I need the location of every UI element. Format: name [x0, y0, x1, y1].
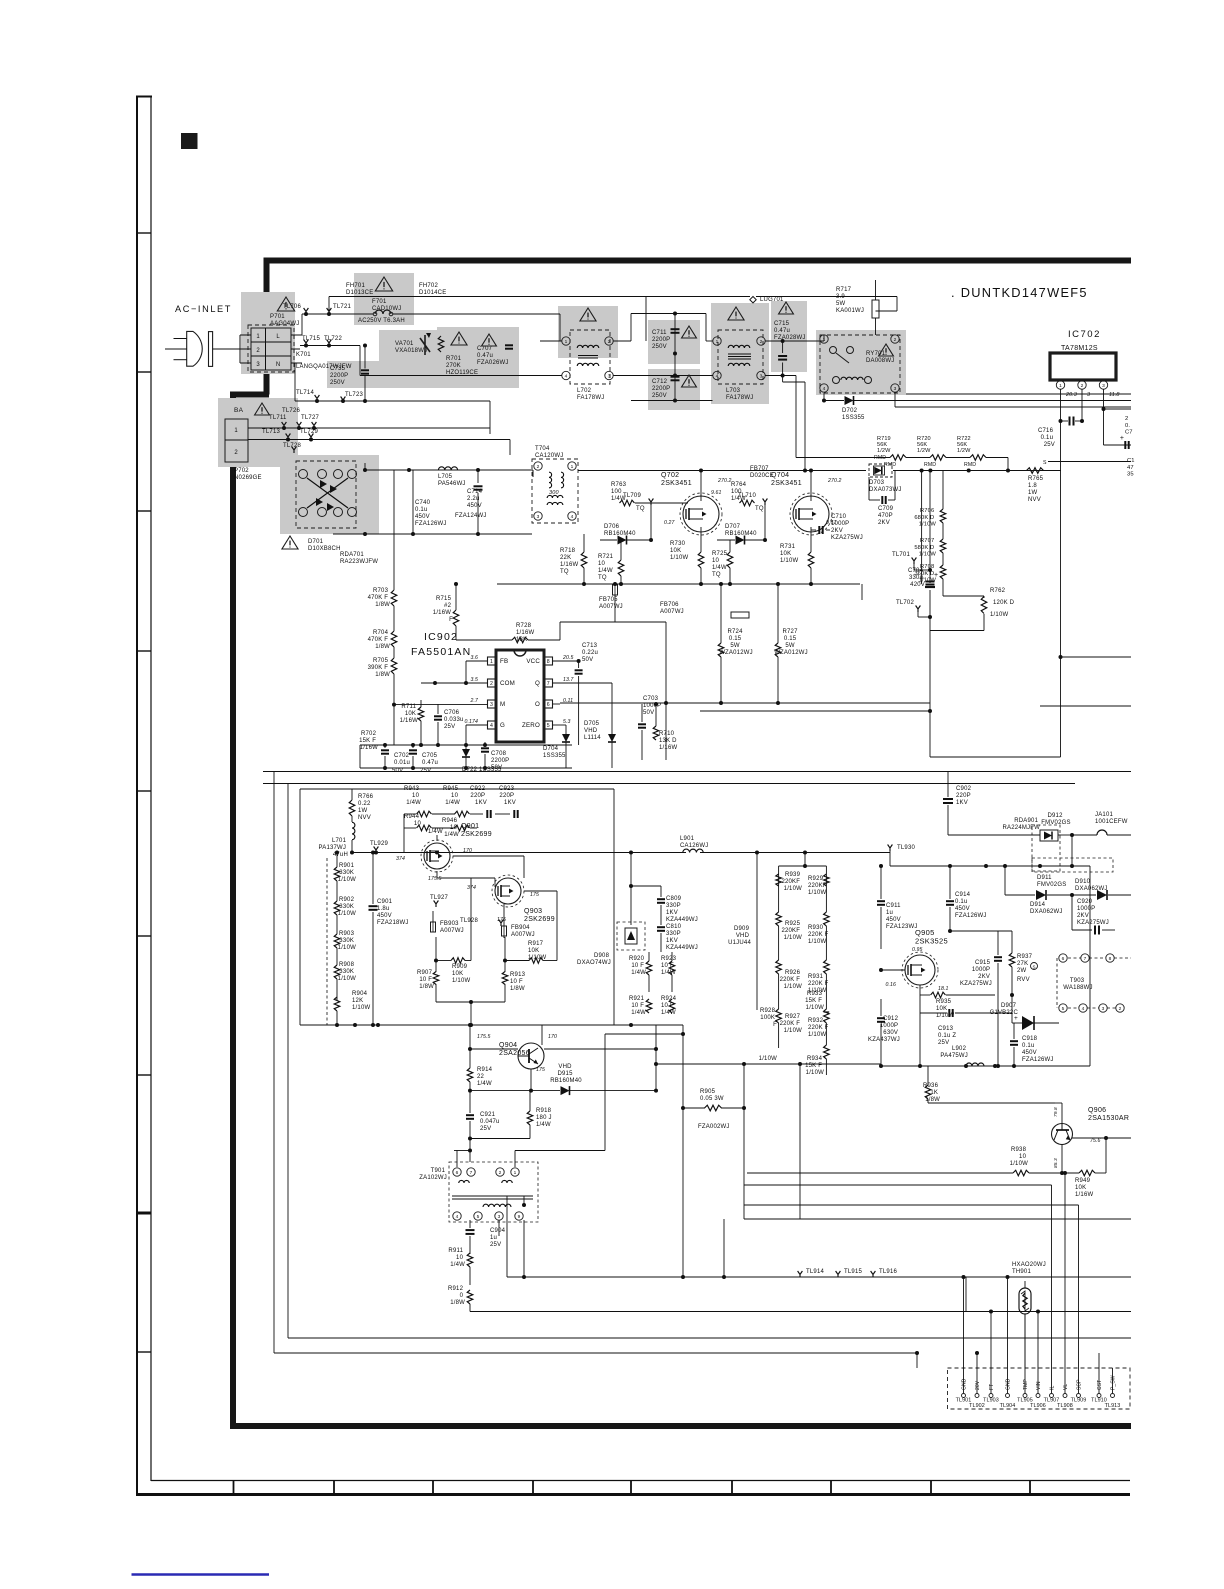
svg-text:13.7: 13.7 — [563, 677, 575, 683]
svg-text:FT: FT — [989, 1384, 995, 1390]
dashed sense line — [326, 858, 328, 1025]
gray box C712 — [648, 369, 700, 410]
svg-text:+: + — [934, 572, 938, 579]
capacitor C710 — [818, 526, 820, 534]
svg-text:TL908: TL908 — [1057, 1403, 1073, 1409]
wires D701 to T704 — [365, 469, 533, 471]
svg-text:3: 3 — [760, 374, 763, 380]
outer loop verticals — [273, 772, 275, 1354]
svg-text:R901 330K 1/10W: R901 330K 1/10W — [338, 863, 356, 883]
svg-text:6: 6 — [1062, 956, 1065, 962]
vertical C711 C712 rail — [674, 314, 676, 401]
IC702 pins — [1056, 381, 1064, 389]
rail y1338 — [288, 1337, 1131, 1339]
svg-text:3.6: 3.6 — [470, 655, 478, 661]
rail TL914 row — [507, 1276, 1131, 1278]
rail y1002 — [436, 1001, 505, 1003]
svg-text:1: 1 — [565, 339, 568, 345]
warning triangle F701 — [375, 277, 392, 291]
svg-text:TL927: TL927 — [430, 895, 448, 901]
wire source rail y584 — [560, 583, 860, 585]
svg-text:C704 330u 420V: C704 330u 420V — [908, 568, 925, 588]
svg-text:P_SW: P_SW — [1111, 1375, 1117, 1390]
svg-text:79.8: 79.8 — [1053, 1107, 1059, 1117]
wires IC902 left — [466, 660, 488, 662]
svg-text:LUG701: LUG701 — [760, 297, 784, 303]
rail y1219 — [744, 1218, 1131, 1220]
svg-text:5: 5 — [547, 723, 550, 729]
svg-text:R902 330K 1/10W: R902 330K 1/10W — [338, 897, 356, 917]
svg-text:FB903 A007WJ: FB903 A007WJ — [440, 921, 464, 934]
svg-text:TL930: TL930 — [897, 845, 915, 851]
svg-text:7: 7 — [547, 681, 550, 687]
inner box bottom — [300, 1024, 630, 1026]
svg-text:4: 4 — [571, 514, 574, 520]
wire x757 drop — [756, 853, 758, 867]
svg-text:3: 3 — [894, 386, 897, 392]
gray box R701 C707 — [437, 327, 519, 388]
svg-text:85.3: 85.3 — [1053, 1158, 1059, 1168]
blue footer line — [132, 1573, 270, 1575]
svg-text:50V: 50V — [392, 768, 403, 774]
svg-text:D705 VHD L1114: D705 VHD L1114 — [584, 721, 601, 741]
line filter transformer L703 — [718, 330, 763, 384]
svg-text:20.5: 20.5 — [562, 655, 574, 661]
svg-text:BA: BA — [234, 407, 244, 414]
svg-text:TL701: TL701 — [892, 552, 910, 558]
svg-text:VL: VL — [1063, 1384, 1069, 1390]
svg-text:TL929: TL929 — [370, 841, 388, 847]
svg-text:18.1: 18.1 — [938, 986, 949, 992]
wires L703 right — [765, 340, 824, 342]
svg-text:120K D: 120K D — [993, 600, 1015, 606]
svg-text:R920 10 F 1/4W: R920 10 F 1/4W — [629, 956, 646, 976]
svg-text:9: 9 — [518, 1214, 521, 1220]
svg-text:VIN: VIN — [1036, 1381, 1042, 1390]
capacitors C809 C810 — [657, 898, 665, 900]
svg-text:TL726: TL726 — [282, 408, 300, 414]
svg-text:TL702: TL702 — [896, 600, 914, 606]
dashed box D911 — [1032, 858, 1113, 872]
TL715 TL722 — [304, 340, 309, 347]
diodes D914 D910 — [1036, 890, 1046, 900]
IC702 regulator body — [1050, 353, 1116, 380]
misc verticals right — [965, 1277, 967, 1312]
svg-text:270.2: 270.2 — [827, 478, 841, 484]
svg-text:+: + — [1014, 1015, 1018, 1022]
wire right rails — [921, 471, 923, 585]
svg-text:IC902: IC902 — [424, 631, 458, 643]
wire IC702 pin3 — [1103, 389, 1105, 409]
svg-text:TL711: TL711 — [269, 415, 287, 421]
svg-text:TL928: TL928 — [460, 918, 478, 924]
svg-text:175: 175 — [530, 892, 539, 898]
svg-text:1: 1 — [490, 659, 493, 665]
gray box RY701 — [816, 330, 906, 395]
warning triangle C712 — [682, 375, 697, 387]
wire fuse row — [302, 313, 373, 315]
svg-text:R921 10 F 1/4W: R921 10 F 1/4W — [629, 996, 646, 1016]
svg-text:175.5: 175.5 — [477, 1034, 490, 1040]
warning triangle C715 — [779, 302, 794, 314]
connector pins — [962, 1394, 966, 1398]
inner box top — [300, 788, 614, 790]
capacitor C709 — [881, 496, 883, 504]
inductor L705 — [438, 467, 457, 470]
svg-text:3: 3 — [1102, 1006, 1105, 1012]
svg-text:170: 170 — [463, 848, 472, 854]
svg-text:G: G — [500, 722, 505, 729]
svg-text:3: 3 — [498, 1214, 501, 1220]
svg-text:FZA124WJ: FZA124WJ — [455, 513, 487, 519]
svg-text:TL915: TL915 — [844, 1269, 862, 1275]
thick schematic border — [230, 258, 1131, 1427]
svg-text:RMD: RMD — [874, 455, 886, 461]
svg-text:2: 2 — [1081, 383, 1084, 389]
rail Q901 top — [352, 852, 686, 854]
svg-text:TL710: TL710 — [738, 493, 756, 499]
wire IC702 pin2 — [1081, 389, 1083, 421]
gray box L703 — [711, 303, 769, 404]
svg-text:M: M — [500, 701, 505, 708]
svg-text:R908 330K 1/10W: R908 330K 1/10W — [338, 962, 356, 982]
left rails to bottom — [273, 1352, 275, 1354]
svg-text:TQ: TQ — [636, 506, 645, 512]
diode D703 boxed — [869, 464, 892, 477]
TL710 — [763, 499, 768, 506]
svg-text:FB904 A007WJ: FB904 A007WJ — [511, 925, 535, 938]
svg-text:6: 6 — [456, 1170, 459, 1176]
svg-text:TL913: TL913 — [1105, 1403, 1121, 1409]
wire lug row — [329, 296, 750, 298]
connector P701 — [251, 328, 291, 370]
svg-text:0.95: 0.95 — [912, 947, 923, 953]
gray box VA701 — [379, 330, 437, 388]
svg-text:R913 10 F 1/8W: R913 10 F 1/8W — [510, 972, 527, 992]
svg-text:2: 2 — [894, 337, 897, 343]
wire O pin run — [560, 702, 930, 704]
rail y584 to left — [497, 583, 560, 585]
wire out 394 top — [906, 393, 1131, 395]
rail y1205 — [744, 1204, 1079, 1206]
rail y866 — [890, 865, 1090, 867]
warning triangle C711 — [682, 326, 697, 338]
page left ruler — [136, 96, 138, 1494]
svg-text:FA5501AN: FA5501AN — [411, 646, 471, 658]
svg-text:5: 5 — [1062, 1006, 1065, 1012]
svg-text:1: 1 — [716, 339, 719, 345]
TL930 — [888, 845, 893, 852]
resistor R949 — [1079, 1170, 1095, 1176]
mosfet Q903 — [495, 878, 521, 904]
svg-text:20.3: 20.3 — [1065, 392, 1077, 398]
svg-text:4: 4 — [1082, 1006, 1085, 1012]
IC902 pins left — [488, 657, 497, 665]
mosfet Q704 — [793, 496, 829, 532]
svg-text:RMD: RMD — [964, 462, 976, 468]
gray box F701 fuse — [354, 273, 414, 325]
TL929 — [374, 847, 379, 854]
svg-text:2: 2 — [499, 1170, 502, 1176]
svg-text:ZERO: ZERO — [522, 722, 540, 729]
svg-text:1: 1 — [571, 464, 574, 470]
svg-text:8: 8 — [547, 659, 550, 665]
svg-text:TL722: TL722 — [324, 336, 342, 342]
wire N row — [300, 345, 360, 347]
svg-text:TA78M12S: TA78M12S — [1061, 345, 1098, 352]
svg-text:TL904: TL904 — [1000, 1403, 1016, 1409]
svg-text:11.8: 11.8 — [1109, 392, 1120, 398]
diode D908 boxed — [617, 922, 645, 950]
bridge rectifier D701 — [296, 461, 356, 528]
wire Q903 right — [524, 890, 557, 892]
svg-text:9.61: 9.61 — [711, 490, 722, 496]
svg-text:R933 15K F 1/10W: R933 15K F 1/10W — [805, 991, 824, 1011]
svg-text:374: 374 — [467, 885, 476, 891]
svg-text:2: 2 — [490, 681, 493, 687]
svg-text:25V: 25V — [420, 768, 431, 774]
svg-text:FB707 D020CE: FB707 D020CE — [750, 466, 774, 479]
svg-text:175: 175 — [536, 1067, 545, 1073]
gray box P701 — [241, 292, 295, 374]
connector TL901 box — [948, 1368, 1131, 1409]
svg-text:FZA002WJ: FZA002WJ — [698, 1124, 730, 1130]
warning triangle D701 — [282, 536, 298, 549]
svg-text:2: 2 — [1119, 1006, 1122, 1012]
relay RY701 — [820, 335, 900, 393]
svg-text:TL902: TL902 — [969, 1403, 985, 1409]
wire IC702 pin1 — [1060, 389, 1062, 757]
wire out rows right — [894, 393, 896, 407]
svg-text:IL: IL — [1050, 1386, 1056, 1390]
mosfet Q901 — [424, 843, 450, 869]
svg-text:5: 5 — [477, 1214, 480, 1220]
warning triangle C707 — [482, 334, 497, 346]
svg-text:TL909: TL909 — [1071, 1398, 1087, 1404]
wire T901 pin3 down — [498, 1220, 500, 1236]
svg-text:. DUNTKD147WEF5: . DUNTKD147WEF5 — [951, 285, 1088, 300]
svg-text:GND: GND — [962, 1378, 968, 1390]
svg-text:1: 1 — [823, 337, 826, 343]
svg-text:1/4W: 1/4W — [428, 829, 443, 835]
wires IC902 right — [553, 682, 613, 684]
wire hv bulk rail — [929, 471, 931, 584]
svg-text:FB: FB — [500, 658, 508, 665]
svg-text:TL715: TL715 — [302, 336, 320, 342]
wire Q901 Q903 mid — [436, 871, 438, 878]
svg-text:+: + — [1120, 435, 1124, 442]
svg-text:1: 1 — [514, 1170, 517, 1176]
svg-text:TL713: TL713 — [262, 429, 280, 435]
svg-text:300: 300 — [549, 490, 560, 496]
rail y1185 — [744, 1184, 1052, 1186]
svg-text:TL709: TL709 — [623, 493, 641, 499]
svg-text:2: 2 — [537, 464, 540, 470]
svg-text:Q: Q — [535, 680, 540, 687]
warning triangle BA — [255, 403, 270, 415]
wire loop right — [743, 1064, 745, 1219]
svg-text:FB705 A007WJ: FB705 A007WJ — [599, 597, 623, 610]
svg-text:4: 4 — [823, 386, 826, 392]
gray box line filter L702 — [558, 306, 618, 358]
pin drop wires — [962, 1275, 966, 1279]
svg-text:4: 4 — [490, 723, 493, 729]
svg-text:R903 330K 1/10W: R903 330K 1/10W — [338, 931, 356, 951]
gray box BA P702 — [218, 398, 298, 467]
svg-text:2: 2 — [608, 339, 611, 345]
wire IC902 bottom rail — [360, 744, 572, 746]
svg-text:4: 4 — [456, 1214, 459, 1220]
page bottom ruler — [151, 1480, 1130, 1482]
transistor Q906 — [1052, 1124, 1073, 1145]
wire mid right rail 629 — [559, 629, 561, 640]
fuse bead FB903 — [431, 922, 436, 932]
svg-text:3: 3 — [537, 514, 540, 520]
svg-text:2: 2 — [760, 339, 763, 345]
svg-text:TMP: TMP — [1023, 1379, 1029, 1390]
AC plug symbol — [187, 331, 203, 366]
svg-text:TQ: TQ — [755, 506, 764, 512]
rail L901 — [629, 851, 633, 855]
svg-text:C705 0.47u: C705 0.47u — [422, 753, 439, 766]
TL714 TL723 row — [315, 395, 320, 402]
svg-text:K701: K701 — [296, 352, 311, 358]
wire rail 1025 right — [756, 866, 758, 1010]
svg-text:AC−INLET: AC−INLET — [175, 304, 232, 314]
capacitor C714 — [474, 485, 483, 487]
svg-text:4: 4 — [565, 374, 568, 380]
capacitor C913 — [948, 1009, 950, 1017]
svg-text:TL723: TL723 — [345, 392, 363, 398]
svg-text:C702 0.01u: C702 0.01u — [394, 753, 411, 766]
svg-text:3: 3 — [1102, 383, 1105, 389]
svg-text:TL914: TL914 — [806, 1269, 824, 1275]
wires L702 — [540, 340, 562, 342]
TL927 TL928 — [434, 901, 439, 908]
svg-text:TL721: TL721 — [333, 304, 351, 310]
rail y1311 — [470, 1311, 1131, 1313]
gray box C711 — [648, 320, 700, 364]
svg-text:S: S — [1043, 460, 1047, 466]
svg-text:CST: CST — [1097, 1380, 1103, 1390]
svg-text:0.174: 0.174 — [465, 719, 478, 725]
svg-text:0.16: 0.16 — [886, 982, 897, 988]
svg-text:R925 220KF 1/10W: R925 220KF 1/10W — [781, 921, 802, 941]
wire out 461 — [1048, 461, 1131, 463]
wire gate rail y470 — [893, 470, 1061, 472]
wire drain rail — [578, 470, 866, 472]
svg-text:R934 15K F 1/10W: R934 15K F 1/10W — [805, 1056, 824, 1076]
gray box C715 — [771, 301, 807, 372]
rail y1025 long — [630, 1024, 683, 1026]
svg-text:7: 7 — [1084, 956, 1087, 962]
svg-text:R939 220KF 1/10W: R939 220KF 1/10W — [781, 872, 802, 892]
TL709 — [649, 499, 654, 506]
svg-text:R710 13K D 1/16W: R710 13K D 1/16W — [659, 731, 679, 751]
TL706 TL721 — [304, 308, 309, 315]
warning triangle RY701 — [879, 344, 894, 356]
svg-text:R702 15K F 1/16W: R702 15K F 1/16W — [359, 731, 378, 751]
svg-text:IC702: IC702 — [1068, 329, 1101, 340]
rail y1066 — [881, 1065, 1090, 1067]
svg-text:TL727: TL727 — [301, 415, 319, 421]
svg-text:3: 3 — [1087, 392, 1090, 398]
rail y1138 — [470, 1138, 530, 1140]
diode D702 — [845, 396, 854, 405]
svg-text:1/10W: 1/10W — [759, 1056, 777, 1062]
wire x524 down — [523, 1220, 525, 1277]
gray box D701 bridge — [280, 455, 379, 534]
svg-text:R762: R762 — [990, 588, 1006, 594]
TL701 TL702 C704 — [912, 558, 917, 565]
gray box C735 — [327, 361, 404, 388]
svg-text:20V: 20V — [975, 1380, 981, 1390]
svg-text:270.2: 270.2 — [717, 478, 731, 484]
svg-text:N: N — [276, 362, 280, 368]
svg-text:2.7: 2.7 — [469, 698, 479, 704]
svg-text:3.5: 3.5 — [470, 677, 478, 683]
svg-text:O: O — [535, 701, 540, 708]
svg-text:7: 7 — [470, 1170, 473, 1176]
LUG701 — [750, 297, 756, 303]
svg-text:S: S — [1032, 965, 1035, 970]
svg-text:1/10W: 1/10W — [990, 612, 1008, 618]
wire x683 long — [682, 1025, 684, 1277]
svg-text:6: 6 — [547, 702, 550, 708]
mosfet Q905 — [905, 955, 935, 985]
wire drop x631 — [630, 853, 632, 887]
wires T901 top — [456, 1151, 458, 1168]
svg-text:R907 10 F 1/8W: R907 10 F 1/8W — [417, 970, 434, 990]
wire Q905 gate — [881, 959, 905, 961]
wire Q903 drain down — [503, 904, 505, 926]
wire right drop x656 — [655, 1025, 657, 1049]
svg-text:FB706 A007WJ: FB706 A007WJ — [660, 602, 684, 615]
divider rails — [263, 771, 1131, 773]
svg-text:TL714: TL714 — [296, 390, 314, 396]
svg-text:8: 8 — [1109, 956, 1112, 962]
svg-text:TL906: TL906 — [1030, 1403, 1046, 1409]
svg-text:3: 3 — [608, 374, 611, 380]
svg-text:RMD: RMD — [884, 462, 896, 468]
svg-text:AC250V T6.3AH: AC250V T6.3AH — [358, 318, 405, 324]
svg-text:374: 374 — [396, 856, 405, 862]
svg-text:175.5: 175.5 — [428, 876, 441, 882]
transistor Q904 — [518, 1043, 544, 1069]
svg-text:75.6: 75.6 — [1090, 1138, 1101, 1144]
black section square — [181, 133, 198, 149]
svg-text:1: 1 — [1059, 383, 1062, 389]
fuse bead FB904 — [502, 926, 507, 936]
svg-text:VCC: VCC — [526, 658, 540, 665]
svg-text:4: 4 — [716, 374, 719, 380]
warning triangle L702 — [580, 308, 596, 321]
svg-text:TL706: TL706 — [283, 304, 301, 310]
warning triangle R701 — [451, 332, 467, 345]
resistor R762 — [981, 597, 987, 614]
svg-text:TL916: TL916 — [879, 1269, 897, 1275]
svg-text:5.3: 5.3 — [563, 719, 571, 725]
svg-text:GND: GND — [1006, 1378, 1012, 1390]
svg-text:RVV: RVV — [1017, 977, 1030, 983]
wire rail y657 section — [696, 584, 698, 602]
rail y1353 — [274, 1352, 917, 1354]
mosfet Q702 — [683, 496, 719, 532]
line filter transformer L702 — [570, 330, 610, 384]
warning triangle P701 — [277, 297, 294, 311]
svg-text:COM: COM — [500, 680, 515, 687]
svg-text:170: 170 — [548, 1034, 557, 1040]
